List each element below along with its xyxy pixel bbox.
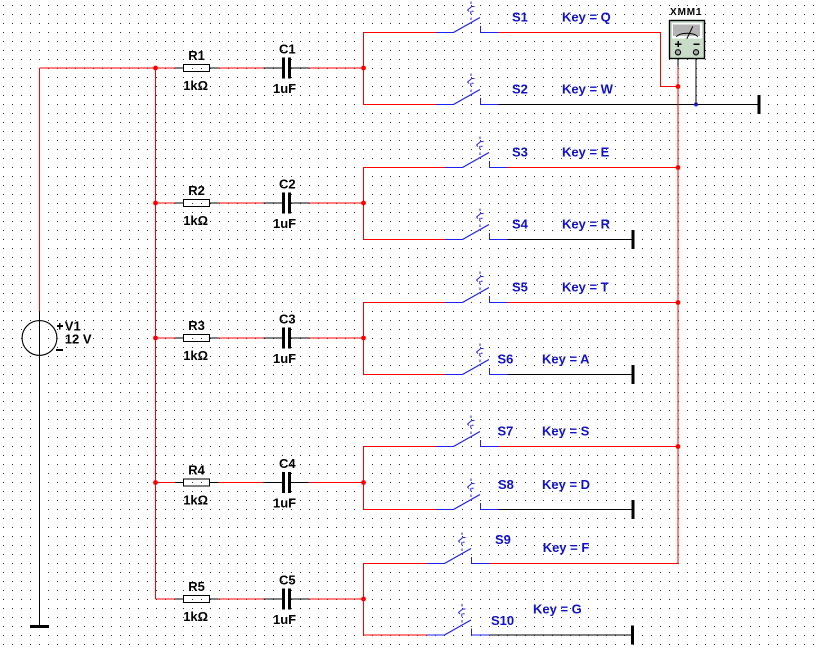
svg-text:R2: R2 <box>188 183 205 198</box>
svg-text:C2: C2 <box>279 177 296 192</box>
svg-text:C5: C5 <box>279 573 296 588</box>
svg-text:1uF: 1uF <box>273 612 296 627</box>
svg-text:1kΩ: 1kΩ <box>183 78 208 93</box>
svg-text:XMM1: XMM1 <box>670 7 703 18</box>
svg-text:C3: C3 <box>279 312 296 327</box>
svg-text:S5: S5 <box>512 279 528 294</box>
svg-text:S8: S8 <box>498 477 514 492</box>
svg-text:Key = R: Key = R <box>562 216 611 231</box>
svg-text:Key = A: Key = A <box>542 352 590 367</box>
svg-text:1kΩ: 1kΩ <box>183 609 208 624</box>
svg-text:R4: R4 <box>188 463 205 478</box>
svg-text:Key = S: Key = S <box>542 424 590 439</box>
svg-text:1uF: 1uF <box>273 216 296 231</box>
svg-text:Key = Q: Key = Q <box>562 9 611 24</box>
svg-text:Key = D: Key = D <box>542 477 590 492</box>
svg-text:R3: R3 <box>188 318 205 333</box>
svg-text:Key = G: Key = G <box>533 602 582 617</box>
svg-text:1kΩ: 1kΩ <box>183 348 208 363</box>
svg-text:S7: S7 <box>498 424 514 439</box>
svg-text:C1: C1 <box>279 42 296 57</box>
svg-text:1uF: 1uF <box>273 496 296 511</box>
svg-text:C4: C4 <box>279 456 296 471</box>
svg-text:S6: S6 <box>498 352 514 367</box>
svg-text:1uF: 1uF <box>273 351 296 366</box>
svg-text:R5: R5 <box>188 579 205 594</box>
svg-text:Key = E: Key = E <box>562 144 610 159</box>
svg-text:12 V: 12 V <box>65 331 92 346</box>
svg-text:S3: S3 <box>512 144 528 159</box>
svg-text:S9: S9 <box>495 532 511 547</box>
svg-text:Key = T: Key = T <box>562 279 609 294</box>
svg-text:S1: S1 <box>512 9 528 24</box>
svg-text:1kΩ: 1kΩ <box>183 493 208 508</box>
svg-text:1uF: 1uF <box>273 81 296 96</box>
svg-text:Key = F: Key = F <box>543 540 590 555</box>
svg-text:Key = W: Key = W <box>562 82 614 97</box>
svg-text:R1: R1 <box>188 48 205 63</box>
svg-text:S4: S4 <box>512 216 529 231</box>
svg-text:S2: S2 <box>512 82 528 97</box>
svg-text:S10: S10 <box>491 613 514 628</box>
svg-text:1kΩ: 1kΩ <box>183 213 208 228</box>
